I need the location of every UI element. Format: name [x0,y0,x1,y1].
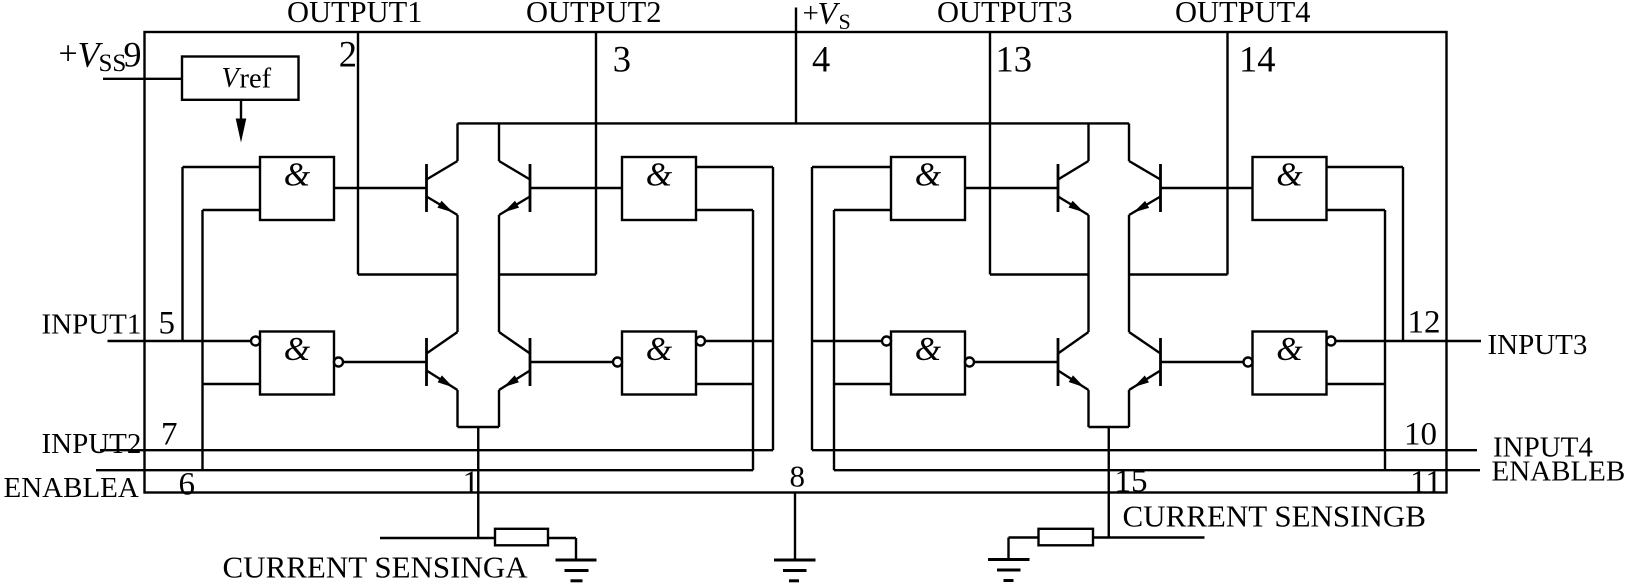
svg-text:S: S [839,9,851,34]
svg-text:SS: SS [99,50,127,77]
svg-text:&: & [646,157,673,194]
svg-text:10: 10 [1404,417,1437,453]
svg-text:CURRENT SENSINGA: CURRENT SENSINGA [223,550,529,584]
svg-text:9: 9 [124,35,142,75]
wire gate B2 output to Q6 base [974,361,1058,363]
wire IN3 riser [1402,167,1404,341]
AND gate B3 (IN3&#183;ENB, drives Q7) [1253,157,1327,220]
wire IN1 riser [181,167,183,341]
wire INPUT3 [1336,340,1482,342]
wire emitter column Q7/Q8 (bridge B right) [1128,390,1130,427]
Vref output arrow [240,100,242,136]
wire OUTPUT2 jog to column [499,273,596,275]
svg-text:13: 13 [996,39,1033,80]
wire INPUT4 [812,449,1477,451]
svg-text:15: 15 [1115,464,1148,500]
transistor Q7/Q8 (bridge B right) lower (NPN sink arm) [1129,332,1161,354]
wire sense A lead [380,537,495,539]
AND gate B1 (IN4&#183;ENB, drives Q5) [891,157,965,220]
svg-text:&: & [1276,331,1303,368]
svg-text:INPUT2: INPUT2 [42,428,142,460]
IC block outline [145,32,1447,493]
wire +Vs rail [458,122,1130,124]
svg-text:OUTPUT4: OUTPUT4 [1175,0,1311,29]
transistor Q7/Q8 (bridge B right) upper (NPN source arm) [1159,164,1162,212]
wire gate A1 output to Q1 base [334,187,427,189]
wire gate A2 output to Q2 base [343,361,427,363]
transistor Q3/Q4 (bridge A right) lower (NPN sink arm) [499,332,530,354]
AND gate A3 (IN2&#183;ENA, drives Q3) [622,157,696,220]
wire +Vss to Vref [103,78,182,80]
svg-text:7: 7 [161,417,178,453]
resistor Rsa (sense A) [495,529,548,546]
wire sense B tap [1108,427,1110,538]
svg-text:14: 14 [1239,39,1276,80]
wire INPUT1 [108,340,252,342]
AND gate A1 (IN1&#183;ENA, drives Q1) [260,157,334,220]
svg-text:V: V [222,63,242,94]
wire emitter column Q5/Q6 (bridge B left) [1087,390,1089,427]
wire ENA riser left [201,210,203,470]
svg-text:ref: ref [240,64,272,95]
wire OUTPUT4 vertical [1226,32,1228,275]
wire OUTPUT3 jog to column [990,273,1089,275]
svg-text:1: 1 [463,465,480,501]
svg-text:2: 2 [339,34,357,75]
svg-text:&: & [915,331,942,368]
wire gate B4 output to Q8 base [1161,361,1244,363]
svg-text:ENABLEB: ENABLEB [1492,456,1626,488]
wire gate B1 input1 (IN4) [812,166,891,168]
wire OUTPUT1 vertical [357,32,359,275]
wire ENA riser right [752,210,754,470]
wire gate A4 input1 (IN2) [705,340,773,342]
NAND-style gate B4 (inverted IN3, drives Q8) [1253,332,1327,395]
wire ENB riser right [1384,210,1386,470]
bubble gate A2 output [334,358,343,367]
bubble gate B2 output [965,358,974,367]
svg-text:OUTPUT3: OUTPUT3 [937,0,1073,29]
wire gate B3 input2 (ENB) [1327,209,1386,211]
svg-text:4: 4 [812,39,830,80]
wire output column Q5/Q6 (bridge B left) [1087,215,1089,332]
svg-text:+: + [59,36,78,73]
wire gate B4 input2 (ENB) [1327,383,1386,385]
wire output column Q7/Q8 (bridge B right) [1128,215,1130,332]
transistor Q3/Q4 (bridge A right) upper (NPN source arm) [529,164,532,212]
resistor Rsb (sense B) [1039,529,1094,546]
wire gate B3 output to Q7 base [1161,187,1253,189]
wire gate B3 input1 (IN3) [1327,166,1404,168]
wire gate A4 input2 (ENA) [696,383,753,385]
wire gate A3 input2 (ENA) [696,209,753,211]
wire sense B lead [1093,536,1205,538]
transistor Q1/Q2 (bridge A left) lower (NPN sink arm) [427,332,458,354]
transistor Q5/Q6 (bridge B left) lower (NPN sink arm) [1058,332,1089,354]
svg-text:3: 3 [613,39,631,80]
svg-text:12: 12 [1408,305,1441,341]
wire bridge A sense trapezoid [458,426,500,428]
wire gate B1 output to Q5 base [965,187,1058,189]
wire gate A1 input1 (IN1) [183,166,261,168]
wire IN4 riser [811,167,813,450]
bubble gate B4 input [1327,337,1336,346]
svg-text:OUTPUT2: OUTPUT2 [526,0,662,29]
NAND-style gate A4 (inverted IN2, drives Q4) [622,332,696,395]
wire IN2 riser [772,167,774,450]
wire output column Q1/Q2 (bridge A left) [456,215,458,332]
ground (sense B) [988,558,1030,561]
wire ENABLEA [96,469,753,471]
bubble gate A2 input [251,337,260,346]
wire gate A3 input1 (IN2) [696,166,773,168]
svg-text:+: + [803,0,819,30]
wire output column Q3/Q4 (bridge A right) [498,215,500,332]
wire INPUT2 [100,449,773,451]
transistor Q1/Q2 (bridge A left) upper (NPN source arm) [425,164,428,212]
wire gate A1 input2 (ENA) [203,209,261,211]
transistor Q5/Q6 (bridge B left) upper (NPN source arm) [1057,164,1060,212]
wire gate B2 input1 (IN4) [812,340,882,342]
svg-text:&: & [284,157,311,194]
ground (pin 8) [774,559,816,562]
bubble gate A4 input [696,337,705,346]
svg-text:&: & [915,157,942,194]
wire GND tap [794,493,796,561]
wire gate A3 output to Q3 base [530,187,622,189]
wire OUTPUT4 jog to column [1129,273,1228,275]
wire Rsa to ground [548,537,576,539]
wire OUTPUT2 vertical [595,32,597,275]
wire gate B2 input2 (ENB) [834,383,891,385]
Vref block [182,57,299,100]
bubble gate A4 output [613,358,622,367]
NAND-style gate A2 (inverted IN1, drives Q2) [260,332,334,395]
wire gate A2 input2 (ENA) [203,383,261,385]
svg-text:&: & [284,331,311,368]
wire gate A4 output to Q4 base [530,361,613,363]
svg-text:5: 5 [159,306,176,342]
bubble gate B2 input [882,337,891,346]
svg-text:8: 8 [790,459,806,494]
wire emitter column Q3/Q4 (bridge A right) [498,390,500,427]
wire OUTPUT3 vertical [989,32,991,275]
svg-text:&: & [1276,157,1303,194]
wire +Vs supply line [795,8,797,124]
svg-text:INPUT1: INPUT1 [42,309,142,341]
svg-text:INPUT3: INPUT3 [1488,329,1588,361]
wire ENABLEB [834,469,1480,471]
svg-text:CURRENT SENSINGB: CURRENT SENSINGB [1123,499,1426,534]
wire gate B1 input2 (ENB) [834,209,891,211]
wire Rsb to ground [1009,536,1039,538]
NAND-style gate B2 (inverted IN4, drives Q6) [891,332,965,395]
wire bridge B sense trapezoid [1089,426,1130,428]
bubble gate B4 output [1244,358,1253,367]
wire OUTPUT1 jog to column [358,273,458,275]
wire emitter column Q1/Q2 (bridge A left) [456,390,458,427]
svg-text:OUTPUT1: OUTPUT1 [287,0,423,29]
svg-text:ENABLEA: ENABLEA [4,472,139,504]
svg-text:&: & [646,331,673,368]
ground (sense A) [556,559,597,562]
wire sense A tap [477,427,479,538]
wire ENB riser left [833,210,835,470]
svg-text:6: 6 [179,467,196,503]
